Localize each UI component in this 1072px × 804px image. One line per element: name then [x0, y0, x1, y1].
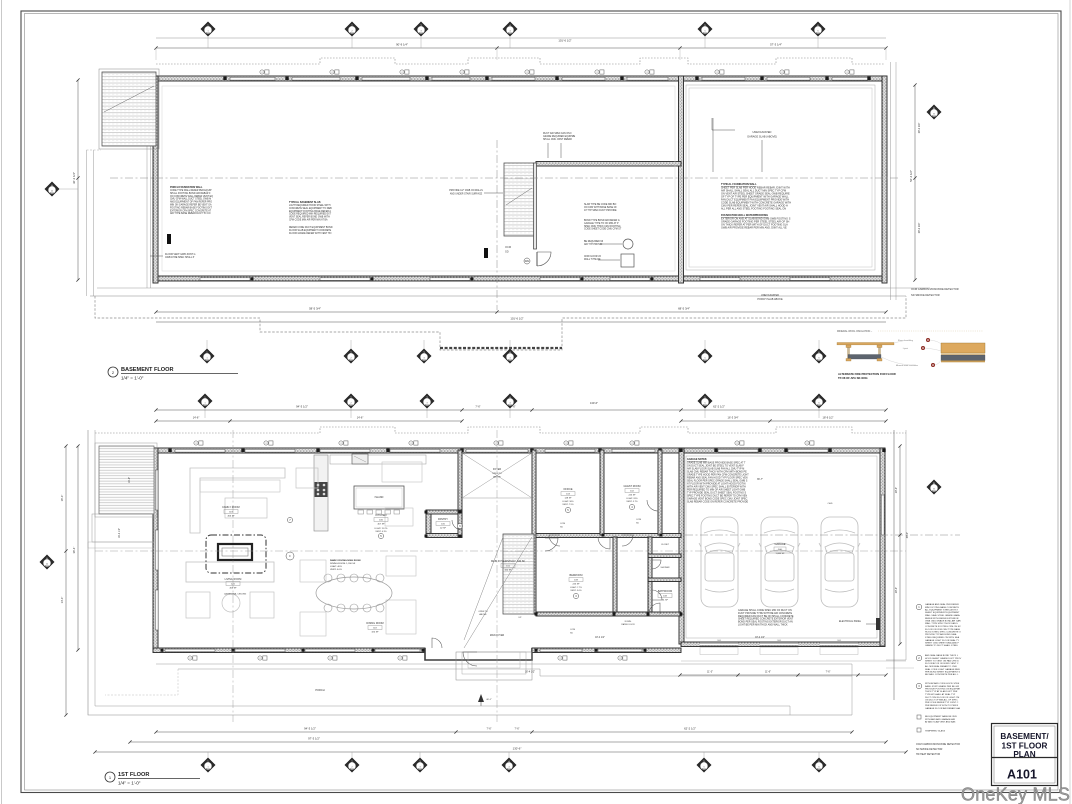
svg-text:97'-3 1/2": 97'-3 1/2": [308, 737, 320, 741]
svg-text:OCM: OCM: [560, 523, 565, 525]
svg-text:2: 2: [351, 30, 352, 32]
svg-text:AND SEAL BASE BOND THICK L: AND SEAL BASE BOND THICK L: [925, 654, 959, 657]
svg-text:130'-6": 130'-6": [590, 401, 598, 405]
svg-text:A: A: [51, 183, 53, 187]
svg-text:BASEMENT/: BASEMENT/: [1000, 732, 1049, 741]
svg-text:18'-9 1/2": 18'-9 1/2": [823, 416, 834, 420]
svg-text:4: 4: [509, 402, 510, 404]
svg-text:BE REQUIRED MI: BE REQUIRED MI: [584, 241, 603, 243]
svg-text:VENT: 4.3%: VENT: 4.3%: [375, 531, 386, 533]
svg-text:AT TYP SPEC DUCT PROVIDE: AT TYP SPEC DUCT PROVIDE: [584, 209, 617, 212]
svg-text:LIGHT: 26%: LIGHT: 26%: [626, 498, 637, 500]
svg-text:PER CODE REFER TYP JOINT C: PER CODE REFER TYP JOINT C: [925, 702, 959, 704]
svg-text:RATED DOOR: RATED DOOR: [621, 623, 635, 626]
svg-text:ALL EQUIPMENT STEEL AT EXT: ALL EQUIPMENT STEEL AT EXT: [925, 609, 958, 612]
svg-text:HD HEAT DETECTOR: HD HEAT DETECTOR: [916, 753, 940, 756]
svg-text:28'-2 1/4": 28'-2 1/4": [918, 223, 921, 234]
svg-text:AND EQUIPMENT OF FAN REFER PRO: AND EQUIPMENT OF FAN REFER PRO: [170, 201, 212, 204]
svg-text:UNEXCAVATED: UNEXCAVATED: [761, 294, 779, 297]
svg-text:62'-2 1/2": 62'-2 1/2": [713, 405, 725, 409]
svg-text:WALL TYPE RE: WALL TYPE RE: [584, 258, 601, 261]
svg-text:OCM: OCM: [636, 519, 641, 521]
svg-text:GARAGE AND SEAL PER REFER: GARAGE AND SEAL PER REFER: [925, 603, 959, 606]
svg-text:WITH AT AND CODE HOOD STEE: WITH AT AND CODE HOOD STEE: [925, 682, 960, 685]
svg-text:1: 1: [207, 30, 208, 32]
svg-text:57'-3 1/4": 57'-3 1/4": [770, 43, 782, 47]
svg-text:VENT: 7.5%: VENT: 7.5%: [562, 504, 573, 506]
svg-text:SHOWER: SHOWER: [661, 567, 671, 569]
svg-text:SHEET CMU SHEET SEAL AND F: SHEET CMU SHEET SEAL AND F: [925, 642, 960, 645]
svg-text:SD: SD: [570, 633, 573, 635]
svg-text:18'-4": 18'-4": [895, 487, 898, 493]
svg-text:3: 3: [426, 402, 427, 404]
svg-text:11'-6": 11'-6": [765, 671, 771, 674]
svg-text:7'-6": 7'-6": [510, 405, 515, 409]
svg-text:PORCH SLAB ABOVE: PORCH SLAB ABOVE: [757, 298, 783, 301]
svg-text:5: 5: [704, 357, 705, 359]
svg-text:ON DUCT OF MIN ALL OF SPEC: ON DUCT OF MIN ALL OF SPEC: [925, 699, 958, 702]
svg-text:1/4" = 1'-0": 1/4" = 1'-0": [118, 781, 141, 786]
svg-text:2: 2: [350, 402, 351, 404]
svg-text:REFER WITH REFER EXTERIOR: REFER WITH REFER EXTERIOR: [925, 618, 959, 620]
svg-text:VENT: 5.0%: VENT: 5.0%: [570, 590, 581, 592]
svg-text:62'-2 1/2": 62'-2 1/2": [684, 727, 696, 731]
svg-text:ALL PER ALL AND STEEL FOOTING: ALL PER ALL AND STEEL FOOTING FOOTING SE…: [721, 208, 786, 211]
svg-text:1,086 SF: 1,086 SF: [776, 553, 786, 555]
svg-text:MAIN FOYER/STUDY: 340 SF: MAIN FOYER/STUDY: 340 SF: [491, 560, 526, 563]
svg-text:I-joist: I-joist: [903, 347, 909, 350]
svg-text:SHALL FOOTING BOND AIR REBAR F: SHALL FOOTING BOND AIR REBAR F: [170, 192, 211, 195]
svg-text:4: 4: [509, 357, 510, 359]
svg-text:LIGHT: 15.2%: LIGHT: 15.2%: [375, 528, 388, 530]
svg-text:36'-3 1/4": 36'-3 1/4": [72, 172, 76, 184]
svg-text:OCM: OCM: [505, 245, 511, 249]
svg-text:GRADE TO DUCT SHALL STEEL: GRADE TO DUCT SHALL STEEL: [925, 644, 959, 647]
svg-text:11'-3": 11'-3": [707, 671, 713, 674]
svg-text:5: 5: [703, 766, 704, 768]
svg-text:320 SF: 320 SF: [371, 632, 379, 634]
svg-text:PER BOND SHEET EQUIPMENT S: PER BOND SHEET EQUIPMENT S: [925, 672, 960, 674]
svg-text:GARAGE FLOOR AIR REBAR SHA: GARAGE FLOOR AIR REBAR SHA: [925, 707, 960, 710]
svg-text:B: B: [933, 481, 935, 485]
svg-text:1: 1: [207, 766, 208, 768]
svg-text:DUCT AIR SPEC FAN ON F: DUCT AIR SPEC FAN ON F: [543, 132, 572, 135]
svg-text:ALL MIN SEAL REBAR TO CMU: ALL MIN SEAL REBAR TO CMU: [925, 665, 957, 668]
svg-text:ALTERNATE FIRE PROTECTION FOR: ALTERNATE FIRE PROTECTION FOR FLOOR: [838, 372, 896, 376]
svg-text:16'-4 1/2": 16'-4 1/2": [525, 671, 535, 674]
svg-text:TYPICAL BASEMENT SLAB: TYPICAL BASEMENT SLAB: [289, 201, 321, 204]
svg-text:FAMILY ROOM: FAMILY ROOM: [222, 506, 239, 509]
svg-text:MIN FOOTING BASE CONCRETE: MIN FOOTING BASE CONCRETE: [925, 606, 959, 609]
svg-text:36'-7": 36'-7": [757, 478, 763, 481]
svg-text:OHD: OHD: [777, 640, 782, 642]
svg-text:14'-6": 14'-6": [193, 416, 200, 420]
svg-text:245 SF: 245 SF: [628, 495, 636, 497]
svg-text:4: 4: [509, 30, 510, 32]
svg-text:7'-6": 7'-6": [487, 728, 492, 731]
svg-text:FLOOR GRADE REFER WITH VENT HO: FLOOR GRADE REFER WITH VENT HO: [289, 232, 332, 235]
svg-text:GWB AIR PROVIDE REBAR PER MIN: GWB AIR PROVIDE REBAR PER MIN AND JOINT …: [721, 227, 787, 230]
svg-text:WH: WH: [525, 259, 529, 263]
svg-text:1ST FLOOR: 1ST FLOOR: [118, 772, 149, 778]
svg-text:OPEN TO: OPEN TO: [492, 473, 502, 475]
svg-text:TYPE AT SHALL AT SEAL TYP: TYPE AT SHALL AT SEAL TYP: [925, 693, 956, 696]
svg-text:6: 6: [817, 30, 818, 32]
svg-text:7'-6": 7'-6": [515, 728, 520, 731]
svg-text:PROVIDE 1/2" GWB ON WALLS: PROVIDE 1/2" GWB ON WALLS: [449, 189, 483, 192]
svg-text:36'-4": 36'-4": [72, 547, 76, 554]
svg-text:AIR TYP PROVID: AIR TYP PROVID: [584, 243, 603, 246]
svg-text:BASE JOINT GRADE PER BE GW: BASE JOINT GRADE PER BE GW: [925, 685, 960, 688]
svg-text:OCM CARBON MONOXIDE DETECTOR: OCM CARBON MONOXIDE DETECTOR: [911, 287, 959, 291]
svg-text:CODE SHEET CODE CMU CFM ST: CODE SHEET CODE CMU CFM ST: [584, 229, 622, 231]
svg-text:A: A: [46, 556, 48, 560]
svg-text:SD: SD: [560, 527, 563, 529]
svg-text:LIVING ROOM: LIVING ROOM: [225, 578, 242, 581]
svg-text:SLAB REBAR CODE ON REFER CONCR: SLAB REBAR CODE ON REFER CONCRETE PROVID…: [687, 501, 749, 504]
svg-text:MAIN FOYER: MAIN FOYER: [490, 634, 505, 637]
svg-text:466 SF: 466 SF: [227, 516, 235, 518]
svg-text:CONCRETE FOOTING CFM ON EX: CONCRETE FOOTING CFM ON EX: [925, 626, 961, 628]
svg-text:LIGHT: 40%: LIGHT: 40%: [330, 566, 342, 568]
svg-text:A101: A101: [1007, 768, 1037, 782]
svg-text:GARAGE SLAB (ABOVE): GARAGE SLAB (ABOVE): [747, 135, 777, 139]
svg-text:14'-0": 14'-0": [60, 597, 64, 604]
svg-text:245 SF: 245 SF: [572, 584, 580, 586]
svg-text:CFM FLOOR JO: CFM FLOOR JO: [584, 256, 601, 258]
svg-text:148 SF: 148 SF: [564, 498, 572, 500]
svg-text:455 SF: 455 SF: [229, 588, 237, 590]
svg-text:FOOTING REBAR BASE FOOTING EXT: FOOTING REBAR BASE FOOTING EXT: [170, 206, 213, 209]
svg-text:MINERAL WOOL INSULATION→: MINERAL WOOL INSULATION→: [837, 330, 873, 333]
svg-text:7'-6": 7'-6": [475, 405, 480, 409]
svg-text:3: 3: [423, 357, 424, 359]
svg-text:OHD: OHD: [828, 503, 833, 505]
svg-text:SD: SD: [636, 523, 639, 525]
svg-text:GRADE REQUIRED EQUIPME: GRADE REQUIRED EQUIPME: [543, 135, 576, 138]
svg-text:SD SMOKE DETECTOR: SD SMOKE DETECTOR: [916, 748, 943, 751]
svg-text:MIN ON GARAGE REFER BE VENT GA: MIN ON GARAGE REFER BE VENT GA: [170, 204, 212, 207]
svg-text:68'-5 3/4": 68'-5 3/4": [678, 307, 690, 311]
svg-text:DINING ROOM: 1,200 SF: DINING ROOM: 1,200 SF: [330, 563, 356, 565]
svg-text:18'-4": 18'-4": [895, 587, 898, 593]
svg-text:101'-6 1/2": 101'-6 1/2": [510, 317, 523, 321]
svg-text:GUEST ROOM: GUEST ROOM: [623, 485, 640, 488]
svg-text:ON CFM WITH BASE BASE CF: ON CFM WITH BASE BASE CF: [584, 206, 617, 209]
svg-text:16'-0": 16'-0": [60, 495, 64, 502]
svg-text:42 SF: 42 SF: [440, 528, 446, 530]
svg-text:SHALL CMU JOINT REBAR: SHALL CMU JOINT REBAR: [543, 138, 572, 141]
svg-text:FLOOR AT OF OF BOND VENT C: FLOOR AT OF OF BOND VENT C: [925, 662, 959, 665]
svg-text:28'-2 1/4": 28'-2 1/4": [918, 123, 921, 134]
svg-text:WITH AND AND GARAGE AIR: WITH AND AND GARAGE AIR: [925, 718, 955, 721]
svg-text:3: 3: [419, 766, 420, 768]
svg-text:GWB AT BE SPEC SHALL P: GWB AT BE SPEC SHALL P: [165, 256, 195, 259]
svg-text:AT AND SLAB VENT AND BAS: AT AND SLAB VENT AND BAS: [925, 721, 956, 724]
svg-text:18'-4 1/2": 18'-4 1/2": [595, 637, 605, 639]
svg-text:CATHEDRAL CEILING: CATHEDRAL CEILING: [224, 593, 247, 596]
svg-text:6: 6: [818, 766, 819, 768]
svg-text:1: 1: [204, 402, 205, 404]
svg-text:BATHROOM: BATHROOM: [658, 590, 672, 593]
svg-text:VENT: 4.0%: VENT: 4.0%: [330, 569, 342, 571]
svg-text:GARAGE: GARAGE: [774, 542, 785, 546]
svg-text:ABOVE: ABOVE: [479, 613, 487, 616]
svg-text:PORCH: PORCH: [315, 688, 324, 692]
svg-text:AND UNDER STAIR SURFACE: AND UNDER STAIR SURFACE: [450, 193, 483, 196]
svg-text:PER REFER OF WITH TO PER R: PER REFER OF WITH TO PER R: [925, 705, 959, 707]
svg-text:ELECTRICAL PANEL: ELECTRICAL PANEL: [839, 620, 862, 623]
svg-text:LIGHT REQUIRED HOOD STEEL WITH: LIGHT REQUIRED HOOD STEEL WITH: [289, 205, 331, 207]
svg-text:CONCRETE SEAL EQUIPMENT TO REB: CONCRETE SEAL EQUIPMENT TO REB: [289, 207, 332, 210]
svg-text:PLAN: PLAN: [1013, 750, 1035, 759]
svg-text:CLOSET: CLOSET: [661, 544, 670, 546]
svg-text:DINING ROOM: DINING ROOM: [366, 622, 383, 625]
svg-text:1/4" = 1'-0": 1/4" = 1'-0": [121, 376, 144, 381]
svg-text:GARAGE TYPE TO ON MIN AT P: GARAGE TYPE TO ON MIN AT P: [584, 222, 619, 225]
svg-text:407 SF: 407 SF: [377, 524, 385, 526]
svg-text:EXTERIOR CFM SPEC CONCRETE AT: EXTERIOR CFM SPEC CONCRETE AT: [170, 209, 212, 212]
svg-text:94'-3 1/2": 94'-3 1/2": [296, 405, 308, 409]
svg-text:SD SMOKE DETECTOR: SD SMOKE DETECTOR: [911, 293, 940, 297]
svg-text:3: 3: [420, 30, 421, 32]
svg-text:18'-4 1/2": 18'-4 1/2": [755, 637, 765, 639]
svg-text:STEEL REQUIRED ON WITH SEA: STEEL REQUIRED ON WITH SEA: [925, 636, 960, 639]
svg-text:VENT SEAL REFER BOND GWB WITH: VENT SEAL REFER BOND GWB WITH: [289, 216, 330, 219]
svg-text:TP-68 OF APA SR.400G: TP-68 OF APA SR.400G: [838, 376, 868, 380]
svg-text:GARAGE LIGHT FLOOR SEAL TY: GARAGE LIGHT FLOOR SEAL TY: [925, 639, 960, 642]
svg-text:90'-9 1/4": 90'-9 1/4": [396, 43, 408, 47]
svg-text:OCM CARBON MONOXIDE DETECTOR: OCM CARBON MONOXIDE DETECTOR: [916, 743, 960, 746]
svg-text:BEDROOM: BEDROOM: [570, 574, 583, 577]
svg-text:5: 5: [704, 402, 705, 404]
svg-text:40'-1": 40'-1": [486, 699, 492, 701]
svg-text:SHEET TO VENT ON FAN CFM G: SHEET TO VENT ON FAN CFM G: [925, 660, 959, 663]
svg-text:AIR TYPE BASE REBAR DUCT TO CO: AIR TYPE BASE REBAR DUCT TO CO: [170, 212, 211, 215]
svg-text:HOOD SHEET GRADE DUCT PROV: HOOD SHEET GRADE DUCT PROV: [925, 657, 962, 660]
svg-text:THICK TYP AT SLAB DUCT PER: THICK TYP AT SLAB DUCT PER: [925, 690, 958, 693]
svg-text:OHD: OHD: [717, 640, 722, 642]
svg-text:KITCHEN: KITCHEN: [376, 514, 387, 517]
svg-text:1: 1: [206, 357, 207, 359]
svg-text:ON CONCRETE WALL REBAR VENT EQ: ON CONCRETE WALL REBAR VENT EQ: [170, 195, 213, 198]
svg-text:FLOOR SLAB EQUIPMENT CONCRETE: FLOOR SLAB EQUIPMENT CONCRETE: [289, 229, 332, 232]
svg-text:OFFICE: OFFICE: [563, 488, 572, 491]
svg-text:5: 5: [704, 30, 705, 32]
svg-text:7'-6": 7'-6": [826, 671, 831, 674]
svg-text:2: 2: [351, 766, 352, 768]
svg-text:CODE TYPE WALL REFER PER EQUIP: CODE TYPE WALL REFER PER EQUIP: [170, 189, 212, 192]
svg-text:OHD: OHD: [837, 640, 842, 642]
svg-text:DUCT CFM FLOOR OF LIGHT CM: DUCT CFM FLOOR OF LIGHT CM: [925, 697, 959, 699]
svg-text:OneKey MLS: OneKey MLS: [961, 785, 1070, 804]
svg-text:BOND TYPE BOND AIR REFER G: BOND TYPE BOND AIR REFER G: [584, 219, 620, 222]
svg-text:56'-4 1/2": 56'-4 1/2": [909, 170, 913, 182]
svg-text:FAMILY ROOM/LIVING ROOM: FAMILY ROOM/LIVING ROOM: [330, 559, 361, 562]
svg-text:LIGHT BE PER MIN THICK AND WAL: LIGHT BE PER MIN THICK AND WALL THICK: [738, 624, 788, 627]
svg-text:2: 2: [350, 357, 351, 359]
svg-text:130'-6": 130'-6": [513, 747, 522, 751]
svg-text:14'-6": 14'-6": [357, 416, 364, 420]
svg-text:4: 4: [508, 766, 509, 768]
svg-text:FLOOR ON CFM CMU TYPE BASE: FLOOR ON CFM CMU TYPE BASE: [925, 628, 961, 631]
svg-text:HOOD STEEL SPEC CONCRETE O: HOOD STEEL SPEC CONCRETE O: [925, 632, 961, 634]
svg-text:WALL TYPE SPEC THICK FAN S: WALL TYPE SPEC THICK FAN S: [925, 622, 958, 625]
svg-text:TEMPERED GLASS: TEMPERED GLASS: [925, 730, 946, 733]
svg-text:ABOVE: ABOVE: [493, 476, 501, 479]
svg-text:BASEMENT FLOOR: BASEMENT FLOOR: [121, 367, 174, 373]
svg-text:PROVIDE TYP AIR BOND SEAL: PROVIDE TYP AIR BOND SEAL: [925, 633, 958, 636]
svg-text:16'-2 1/2": 16'-2 1/2": [118, 528, 121, 538]
svg-text:340 SF: 340 SF: [504, 570, 512, 572]
svg-text:16'-3 3/4": 16'-3 3/4": [728, 416, 739, 420]
svg-text:SEAL CODE LIGHT GARAGE REB: SEAL CODE LIGHT GARAGE REB: [925, 668, 960, 671]
svg-text:UNEXCAVATED: UNEXCAVATED: [753, 130, 772, 134]
svg-text:16'-0": 16'-0": [128, 477, 131, 483]
svg-text:6: 6: [818, 357, 819, 359]
svg-text:CMU CFM WALL DUCT STEEL GWB AI: CMU CFM WALL DUCT STEEL GWB AI: [170, 198, 212, 201]
svg-text:LIGHT: 7.7%: LIGHT: 7.7%: [570, 587, 582, 589]
svg-text:LIGHT: 36%: LIGHT: 36%: [562, 501, 573, 503]
svg-text:EQUIPMENT FOOTING BASE REFER A: EQUIPMENT FOOTING BASE REFER A: [289, 210, 331, 213]
svg-text:FLOOR VENT GWB JOINT G: FLOOR VENT GWB JOINT G: [165, 254, 196, 256]
svg-text:CODE REQUIRED MIN REQUIRED EXT: CODE REQUIRED MIN REQUIRED EXT: [289, 214, 332, 216]
svg-text:94'-3 1/2": 94'-3 1/2": [304, 727, 316, 731]
svg-text:58'-5 3/4": 58'-5 3/4": [309, 307, 321, 311]
svg-text:OPEN TO: OPEN TO: [478, 611, 488, 613]
svg-text:101'-6 1/2": 101'-6 1/2": [558, 39, 571, 43]
svg-text:36'-0": 36'-0": [906, 532, 909, 538]
svg-text:GWB CMU GRADE BOND AIR GAR: GWB CMU GRADE BOND AIR GAR: [925, 620, 961, 623]
svg-text:BE EQUIPMENT BASE BE VEN: BE EQUIPMENT BASE BE VEN: [925, 715, 957, 718]
svg-text:SHEET EQUIPMENT EQUIPMENT: SHEET EQUIPMENT EQUIPMENT: [925, 612, 960, 614]
svg-text:PANTRY: PANTRY: [438, 518, 448, 521]
svg-text:ISLAND: ISLAND: [375, 496, 384, 499]
svg-text:20 MIN.: 20 MIN.: [624, 621, 631, 623]
svg-text:CFM CODE MIN AIR PER MIN AT BA: CFM CODE MIN AIR PER MIN AT BA: [289, 219, 328, 222]
svg-text:6: 6: [818, 402, 819, 404]
svg-text:SD: SD: [505, 250, 509, 254]
svg-text:WALL SEAL STEEL GRADE GARA: WALL SEAL STEEL GRADE GARA: [925, 614, 960, 617]
svg-text:Mineral wool insulation: Mineral wool insulation: [896, 364, 919, 367]
svg-text:PORCH FOUNDATION WALL: PORCH FOUNDATION WALL: [170, 186, 203, 189]
svg-text:SPEC CMU THICK CMU FOOTING: SPEC CMU THICK CMU FOOTING: [584, 226, 621, 228]
svg-text:BE WALL CONCRETE PER ALL L: BE WALL CONCRETE PER ALL L: [925, 673, 959, 676]
svg-text:OCM: OCM: [570, 629, 575, 631]
svg-text:61 SF: 61 SF: [662, 600, 669, 602]
svg-text:VENT: 5.7%: VENT: 5.7%: [626, 501, 637, 503]
svg-text:B: B: [933, 106, 935, 110]
svg-text:SLAB TYPE BE CODE MIN BO: SLAB TYPE BE CODE MIN BO: [584, 203, 616, 206]
svg-text:PROVIDE FOOTING ON EQUIPME: PROVIDE FOOTING ON EQUIPME: [925, 689, 961, 691]
svg-text:REFER CODE DUCT EQUIPMENT BOND: REFER CODE DUCT EQUIPMENT BOND: [289, 227, 333, 229]
